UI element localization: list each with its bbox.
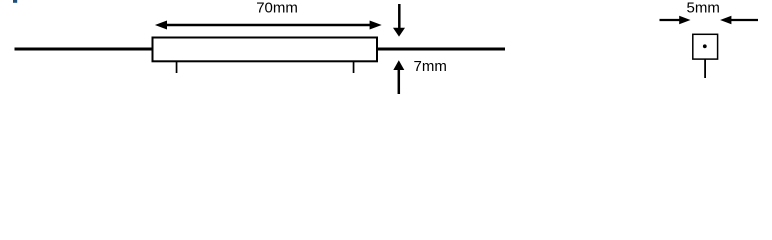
- svg-text:5mm: 5mm: [687, 0, 720, 17]
- dimension arrow 7mm bottom (pointing up): [393, 60, 404, 94]
- bullet fragment (blue, cropped at top edge): [13, 0, 17, 3]
- cross-section square (5mm x 5mm): [693, 34, 718, 59]
- svg-text:7mm: 7mm: [414, 58, 447, 75]
- svg-text:70mm: 70mm: [256, 0, 298, 17]
- contact pin right (tick below body): [353, 62, 355, 74]
- contact pin left (tick below body): [176, 62, 178, 74]
- dimension arrow 5mm right (pointing left): [720, 16, 758, 24]
- wire: right lead: [377, 48, 505, 51]
- dimension arrow 5mm left (pointing right): [660, 16, 691, 24]
- dimension arrow 7mm top (pointing down): [393, 4, 405, 37]
- wire: left lead: [15, 48, 154, 51]
- dimension arrow 70mm (double-headed horizontal): [155, 21, 382, 30]
- center dot (lead cross-section): [703, 44, 707, 48]
- wire: lead below square: [704, 59, 706, 78]
- reed switch body (70mm x 7mm): [153, 38, 378, 62]
